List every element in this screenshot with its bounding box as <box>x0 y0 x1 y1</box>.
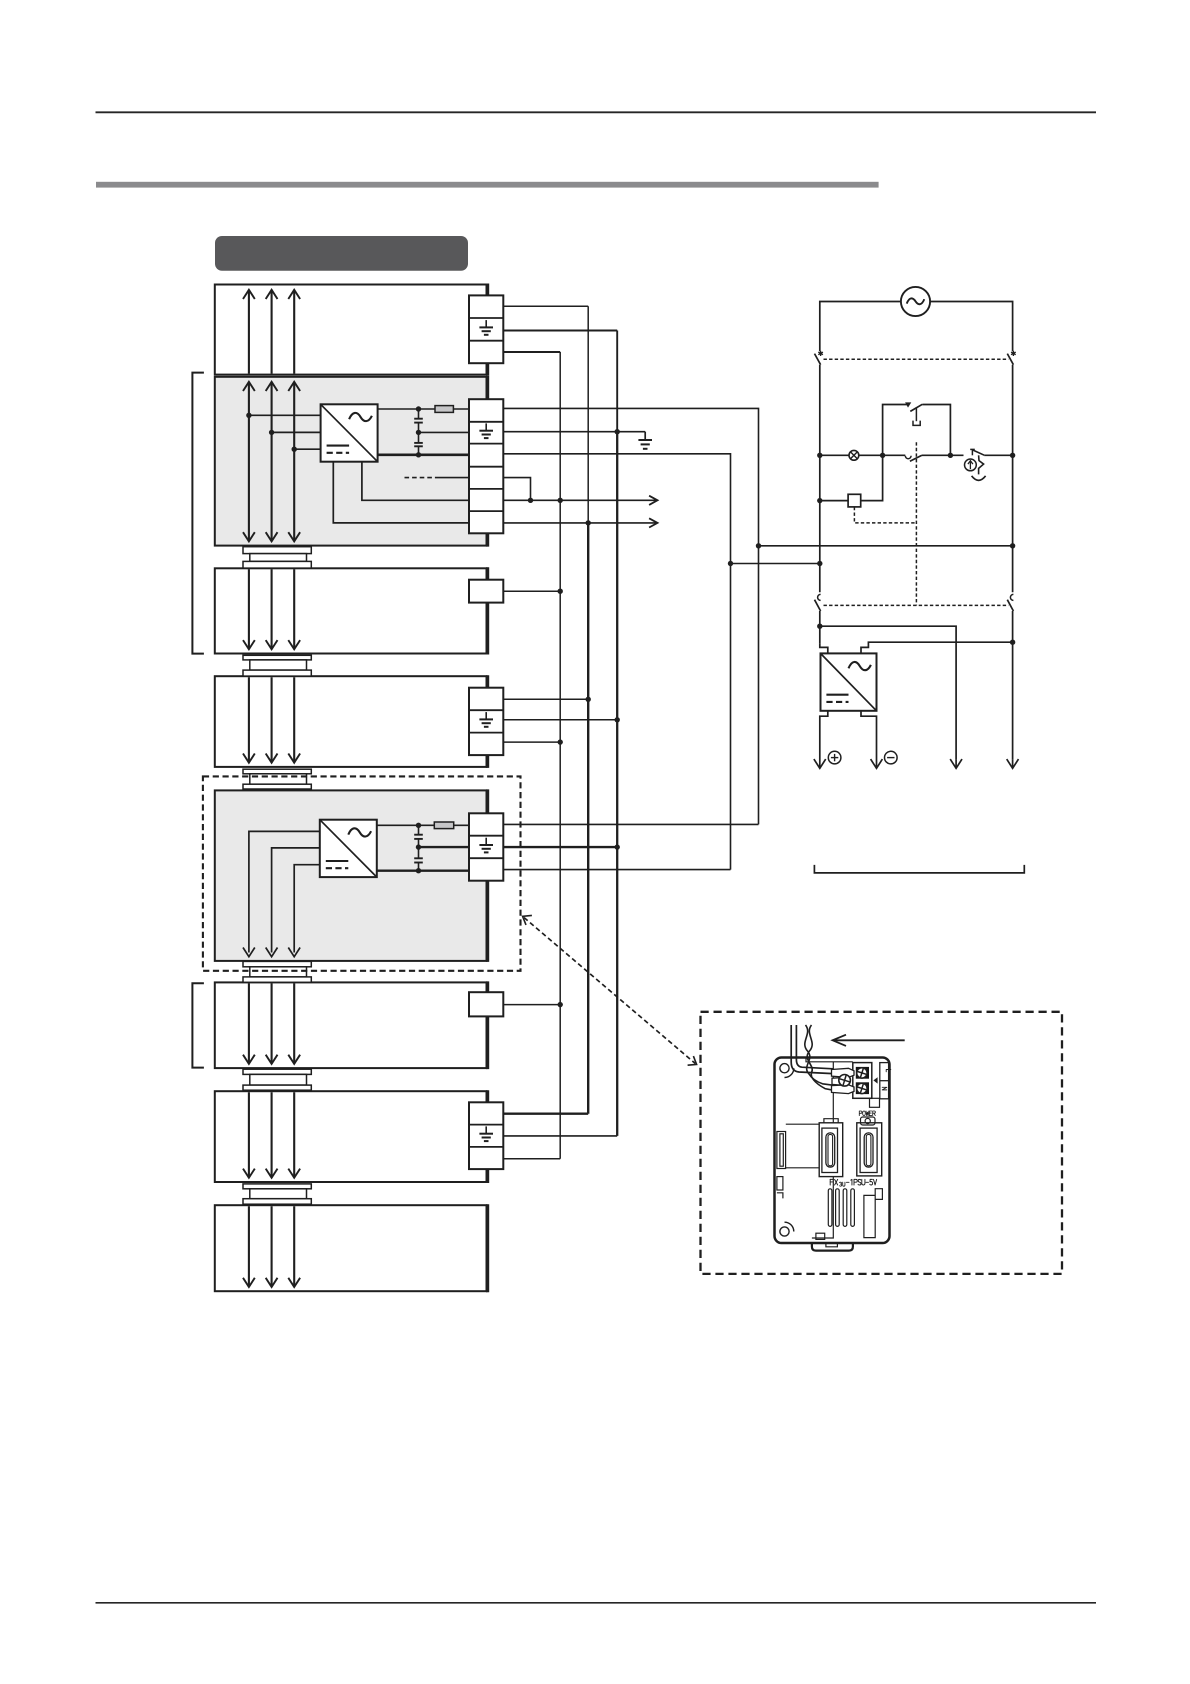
dashed arrow linking dashed outline to inset detail <box>523 915 697 1065</box>
MC contact hook <box>905 456 911 459</box>
I/O bus arrows (down) <box>243 677 300 763</box>
junction <box>615 844 620 849</box>
wire: MC contact to arrester node <box>922 454 964 456</box>
wire: 24V service line with arrow <box>503 499 656 501</box>
wire: T1 cell1 to vertical bus V2 <box>503 305 588 307</box>
plus terminal label <box>828 751 841 764</box>
down arrows of DC output <box>814 759 826 768</box>
range bracket under DC outputs <box>814 865 1024 873</box>
inset: crimp lug 2 (to centre screw) <box>832 1078 847 1086</box>
powered extension unit box (shaded) <box>215 376 488 547</box>
junction <box>558 1002 563 1007</box>
pushbutton fixed contact mark <box>905 402 911 407</box>
extension cable connector 3 <box>243 769 311 789</box>
terminal block T7 <box>469 1102 503 1169</box>
dashed stub to terminal cell 4 <box>405 477 470 479</box>
junction <box>756 543 761 548</box>
power supply (AC/DC converter) U1 in powered extension unit <box>321 404 378 461</box>
extension cable connector 6 <box>243 1184 311 1204</box>
inset: screw N <box>857 1083 867 1093</box>
junction <box>817 453 822 458</box>
ground symbol in terminal cell <box>479 838 493 853</box>
wire: lamp to MC contact <box>859 454 906 456</box>
wire: U2 24V row with fuse F2 <box>377 824 469 826</box>
inset: right cutout and tab <box>864 1189 883 1238</box>
I/O bus arrows (down) <box>243 1092 300 1178</box>
breaker contact S2 (right pole) with * <box>1007 351 1015 365</box>
wire: 0V service line with arrow <box>503 522 656 524</box>
arrowheads of box5 bus <box>243 948 300 957</box>
manual actuator symbol <box>913 407 920 425</box>
wire: transformer primary left lead <box>820 643 828 653</box>
ground symbol in terminal cell <box>479 712 493 727</box>
extension block box 3 <box>215 981 488 1069</box>
junction <box>416 844 421 849</box>
wire: T2 cell4 jog to 24V service line <box>503 478 530 501</box>
extension block box 4 <box>215 1090 488 1183</box>
junction <box>416 823 421 828</box>
inset: box below terminal <box>870 1098 880 1107</box>
I/O bus arrows (down) <box>243 569 300 649</box>
junction <box>586 520 591 525</box>
inset: extension connector slot 2 <box>857 1123 882 1176</box>
AC power source G1 <box>901 287 930 316</box>
wire: left vertical below MC contact <box>819 611 821 643</box>
title box <box>215 236 468 271</box>
wire: arrester to right vertical <box>984 454 1012 456</box>
wire: U1 bottom leads to service terminals <box>333 462 469 523</box>
inset: power cable 1 (straight pair) <box>791 1025 833 1074</box>
wire: row to service arrow 3 <box>820 626 956 759</box>
capacitor C3 <box>414 825 423 847</box>
power supply (AC/DC converter) U2 in powered extension unit 2 <box>320 820 377 877</box>
wire: T7 cell1 from bus V2 (thick) <box>503 1112 588 1114</box>
wire: T5 cell2 to ground bus V3 (thick) <box>503 846 617 848</box>
down arrow service line 4 <box>1007 759 1019 768</box>
wire: coil to contact branch <box>861 455 883 500</box>
extension block box <box>215 567 488 654</box>
capacitor C1 <box>414 409 423 432</box>
wire: right vertical below breaker <box>1012 365 1014 593</box>
wire: bus to PSU U1 inputs <box>249 415 321 449</box>
junction <box>558 739 563 744</box>
header rule <box>96 111 1097 113</box>
inset: screw centre <box>839 1075 851 1087</box>
wire B: T2 cell2 to external ground <box>503 431 645 433</box>
junction dots on bus arrows (box2) <box>246 413 297 452</box>
lightning arrester E1 <box>965 449 986 480</box>
inset: bottom-left mounting hole <box>780 1222 794 1236</box>
junction <box>615 717 620 722</box>
wire: T7 cell3 from bus V1 <box>503 1158 560 1160</box>
wire A: T2 cell1 feed down to external circuit <box>503 408 1012 824</box>
inset: vent slots <box>828 1189 854 1227</box>
section gray bar <box>96 182 879 188</box>
I/O bus arrows (down) <box>243 983 300 1064</box>
extension block box 2 <box>215 675 488 768</box>
pushbutton loop right side <box>922 405 950 456</box>
wire: T4 cell2 to ground bus V3 <box>503 719 617 721</box>
left bracket grouping extension units (boxes 2-3) <box>192 373 204 654</box>
inset: terminal block frame <box>853 1063 872 1099</box>
powered extension unit box 2 (shaded, in dashed outline) <box>215 789 488 962</box>
junction <box>728 561 733 566</box>
inset: screw L <box>857 1068 867 1078</box>
junction <box>1010 640 1015 645</box>
dashed link: coil to MC contacts <box>854 442 916 605</box>
pin label N <box>882 1087 887 1090</box>
vertical bus V2 (lower thick) <box>587 523 589 1114</box>
vertical bus V1 <box>559 352 561 1159</box>
inset dashed frame <box>701 1012 1063 1274</box>
I/O bus arrows (double headed) in powered extension unit <box>243 382 300 542</box>
wire: U1 24V output row with fuse F1 <box>378 408 469 410</box>
pushbutton blade <box>910 404 922 411</box>
junction <box>416 452 421 457</box>
value label FX3U-1PSU-5V <box>830 1179 837 1185</box>
external ground symbol <box>638 432 652 449</box>
inset: power cable 2 (twisted pair) <box>805 1025 833 1090</box>
junction <box>416 430 421 435</box>
wire: T3 to bus V1 <box>503 590 560 592</box>
pushbutton loop wire <box>883 405 909 456</box>
ground symbol in terminal cell <box>479 423 493 438</box>
extension cable connector 4 <box>243 961 311 982</box>
wire: coil row <box>820 500 848 502</box>
junction <box>615 429 620 434</box>
wire: mid row to terminal (thick) <box>419 846 470 848</box>
junction <box>1010 453 1015 458</box>
external service power supply U3 (AC/DC) <box>821 653 877 710</box>
dashed mechanical link between MC contacts <box>824 604 1009 606</box>
value label POWER with LED <box>859 1111 875 1116</box>
ground symbol in terminal cell <box>479 1126 493 1141</box>
MC contact blade <box>910 455 922 461</box>
left bracket grouping box 6 <box>192 983 204 1067</box>
extension cable connector 1 <box>243 547 311 568</box>
breaker contact S1 (left pole) with * <box>815 351 823 365</box>
junction <box>948 453 953 458</box>
wire: U2 outputs bent down to bus arrows (box5) <box>249 831 320 952</box>
inset: small arrow icon between L and N <box>873 1077 877 1083</box>
main base unit box <box>215 284 488 376</box>
junction <box>528 498 533 503</box>
ground symbol in terminal cell <box>479 320 493 335</box>
inset: bottom foot <box>812 1243 853 1251</box>
I/O bus arrows (up) in base unit <box>243 290 300 374</box>
wire: transformer primary right lead row <box>861 642 1013 653</box>
wire: AC source to poles <box>820 302 1013 352</box>
pilot lamp H1 <box>849 450 859 460</box>
inset: interior contour lines <box>786 1058 853 1239</box>
extension cable connector 2 <box>243 655 311 676</box>
dashed outline box (optional powered extension unit) <box>203 776 521 970</box>
inset: crimp lug 1 <box>832 1068 855 1077</box>
wire: T4 cell3 to bus V1 <box>503 741 560 743</box>
inset: top-left mounting hole <box>780 1064 794 1078</box>
terminal block T5 on powered extension unit 2 <box>469 813 503 880</box>
inset: terminal screw squares (black) <box>856 1067 869 1094</box>
vertical bus V3 ground (lower thick) <box>616 432 618 1136</box>
terminal block T6 <box>469 992 503 1016</box>
wire: U1 0V output row (thick) <box>378 453 469 456</box>
junction <box>880 453 885 458</box>
junction <box>416 406 421 411</box>
wire: mid row to terminal <box>419 431 470 433</box>
inset: unit body outline <box>775 1058 890 1244</box>
junction <box>817 624 822 629</box>
MC main contact right (lower) <box>1007 594 1013 611</box>
terminal block T4 <box>469 688 503 755</box>
capacitor C4 <box>414 847 423 871</box>
wire: T6 to bus V1 <box>503 1004 560 1006</box>
dashed mechanical link between breaker poles <box>824 358 1009 360</box>
inset: direction arrow <box>833 1035 905 1046</box>
wire: arrow shafts to tips <box>820 759 1013 768</box>
I/O bus arrows (down) <box>243 1206 300 1287</box>
terminal block T1 on base unit <box>469 295 503 363</box>
wire: lamp row <box>820 454 849 456</box>
junction <box>586 697 591 702</box>
junction <box>416 868 421 873</box>
pin label L <box>886 1070 891 1072</box>
wire: left vertical below breaker <box>819 365 821 593</box>
junction <box>558 589 563 594</box>
extension block box 5 <box>215 1204 488 1292</box>
MC coil K1 <box>848 494 861 507</box>
fuse F2 <box>434 822 453 829</box>
inset: extension connector slot 1 <box>819 1119 843 1177</box>
terminal block T2 on powered extension unit <box>469 399 503 533</box>
fuse F1 <box>435 406 453 413</box>
inset: small square near foot <box>816 1233 825 1239</box>
inset: L/N label strip <box>880 1063 889 1099</box>
wire: right vertical below MC contact <box>1012 611 1014 759</box>
MC main contact left (lower) <box>815 594 821 611</box>
down arrow service line 3 <box>950 759 962 768</box>
wire: T1 cell2 (ground) to vertical bus V3 <box>503 330 617 332</box>
wire: T7 cell2 from ground bus V3 <box>503 1135 617 1137</box>
inset: DIN rail groove on left edge <box>777 1132 786 1199</box>
capacitor C2 <box>414 432 423 454</box>
vertical bus V2 (upper) <box>587 306 589 523</box>
wire C: T2 cell3 feed down to external circuit <box>503 454 820 870</box>
footer rule <box>96 1602 1097 1604</box>
terminal block T3 on extension block <box>469 580 503 603</box>
wire: U3 DC output leads with arrows <box>820 711 877 764</box>
wire: U2 0V row (thick) <box>377 870 469 872</box>
wire: T4 cell1 to bus V2 <box>503 698 588 700</box>
vertical bus V3 ground (upper) <box>616 331 618 432</box>
extension cable connector 5 <box>243 1069 311 1090</box>
minus terminal label <box>885 751 898 764</box>
inset: crimp lug 3 <box>832 1085 855 1094</box>
wire: T1 cell3 to vertical bus V1 <box>503 351 560 353</box>
